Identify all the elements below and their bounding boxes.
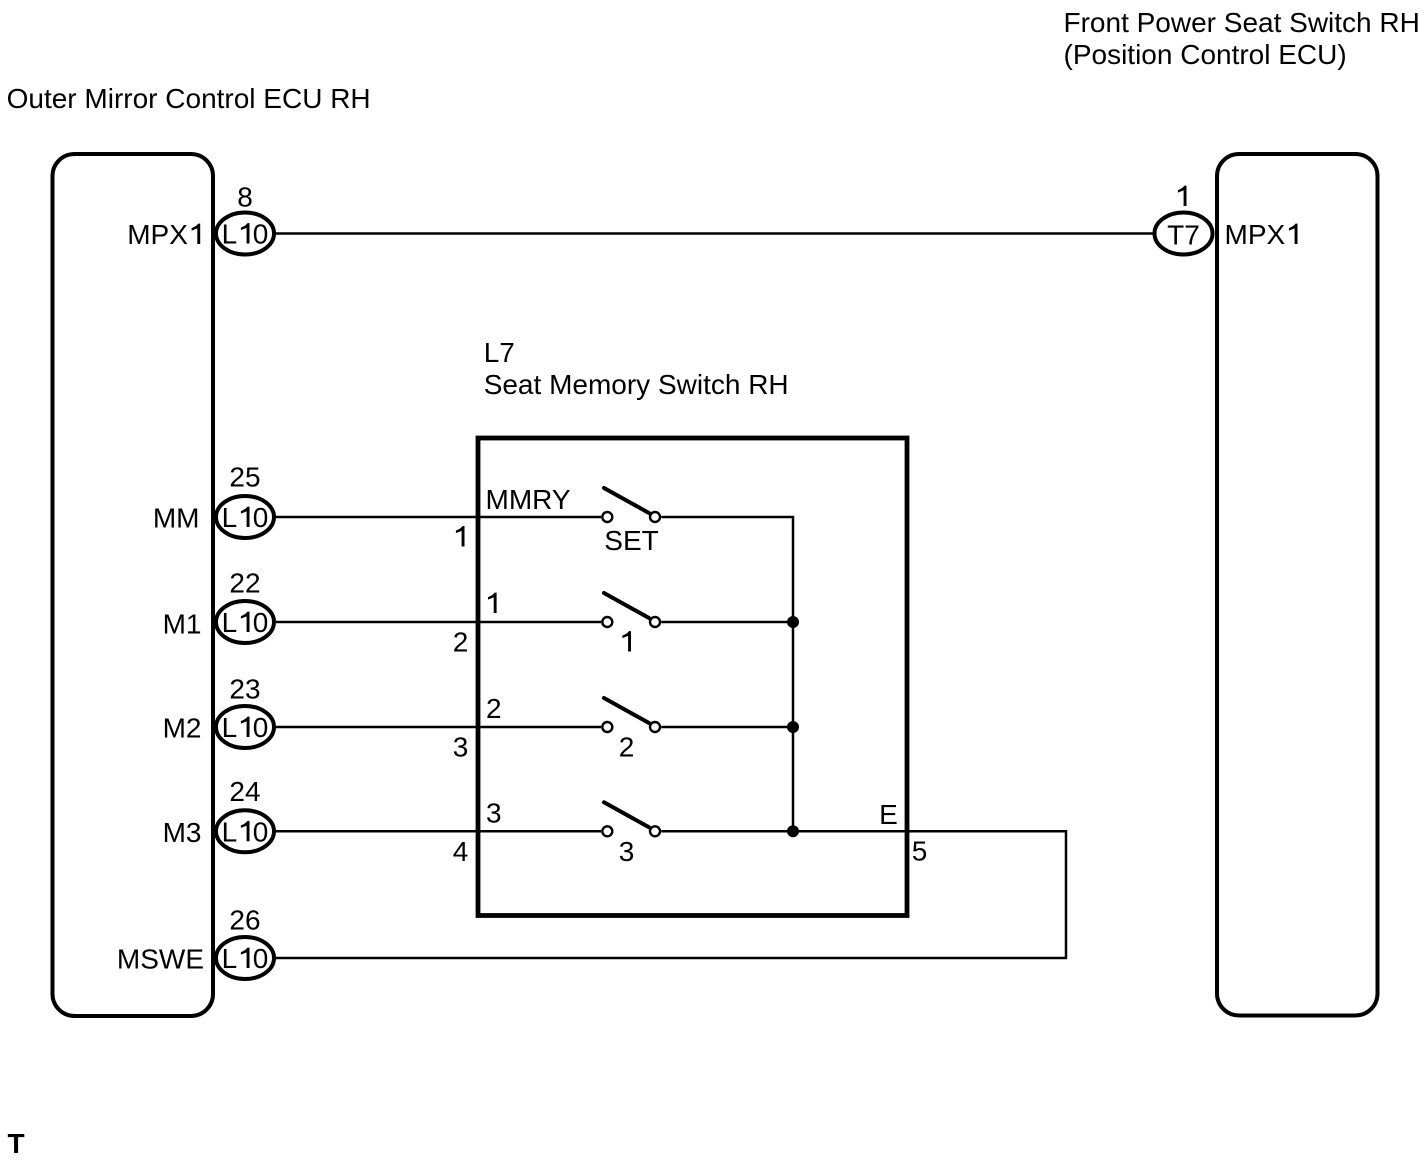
- svg-text:2: 2: [486, 693, 502, 724]
- svg-text:4: 4: [453, 836, 469, 867]
- svg-text:L7: L7: [484, 337, 515, 368]
- svg-text:T: T: [8, 1128, 25, 1159]
- svg-text:Outer Mirror Control ECU RH: Outer Mirror Control ECU RH: [7, 83, 371, 114]
- svg-text:8: 8: [237, 182, 253, 213]
- svg-text:L: L: [222, 712, 238, 743]
- svg-text:Front Power Seat Switch RH: Front Power Seat Switch RH: [1064, 7, 1420, 38]
- svg-text:5: 5: [912, 836, 928, 867]
- svg-text:MPX: MPX: [1225, 219, 1286, 250]
- svg-text:3: 3: [453, 732, 469, 763]
- svg-text:M3: M3: [163, 817, 202, 848]
- svg-text:E: E: [879, 799, 898, 830]
- svg-text:L: L: [222, 502, 238, 533]
- svg-text:0: 0: [253, 816, 269, 847]
- svg-text:2: 2: [619, 732, 635, 763]
- svg-text:MSWE: MSWE: [117, 944, 204, 975]
- svg-text:M2: M2: [163, 713, 202, 744]
- svg-text:3: 3: [486, 797, 502, 828]
- svg-text:Seat Memory Switch RH: Seat Memory Switch RH: [484, 369, 789, 400]
- svg-text:L: L: [222, 943, 238, 974]
- svg-text:24: 24: [229, 776, 260, 807]
- svg-text:26: 26: [229, 905, 260, 936]
- svg-text:22: 22: [229, 568, 260, 599]
- svg-text:25: 25: [229, 462, 260, 493]
- svg-text:SET: SET: [604, 525, 658, 556]
- svg-text:(Position Control ECU): (Position Control ECU): [1064, 39, 1347, 70]
- svg-text:0: 0: [253, 219, 269, 250]
- svg-text:23: 23: [229, 674, 260, 705]
- svg-text:MMRY: MMRY: [486, 484, 571, 515]
- svg-text:MM: MM: [153, 503, 200, 534]
- svg-text:M1: M1: [163, 609, 202, 640]
- svg-text:L: L: [222, 219, 238, 250]
- svg-text:0: 0: [253, 712, 269, 743]
- svg-text:L: L: [222, 607, 238, 638]
- svg-text:2: 2: [453, 627, 469, 658]
- svg-text:0: 0: [253, 502, 269, 533]
- svg-text:3: 3: [619, 836, 635, 867]
- svg-text:MPX: MPX: [127, 219, 188, 250]
- svg-text:0: 0: [253, 943, 269, 974]
- svg-text:L: L: [222, 816, 238, 847]
- svg-text:T7: T7: [1167, 220, 1200, 251]
- svg-text:0: 0: [253, 607, 269, 638]
